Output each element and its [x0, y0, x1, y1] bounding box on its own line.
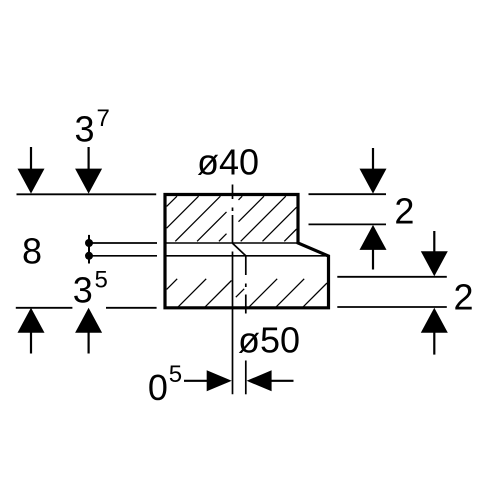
hatching upper band: [167, 196, 297, 241]
arrowhead up BL1: [18, 308, 45, 333]
inner wall line lower: [165, 255, 328, 257]
svg-text:3: 3: [75, 109, 95, 150]
arrowhead down BR: [421, 251, 448, 276]
center line jog: [233, 243, 246, 256]
svg-text:5: 5: [95, 266, 108, 293]
svg-text:2: 2: [454, 277, 474, 318]
arrow up TR stem: [372, 249, 374, 270]
arrow up BL2 stem: [87, 331, 89, 354]
extension line bottom-left b: [106, 307, 157, 309]
extension line top-right: [309, 193, 387, 195]
svg-text:ø40: ø40: [197, 141, 259, 182]
chain dot 1: [85, 239, 93, 247]
arrowhead up BL2: [75, 308, 102, 333]
leader right of bottom arrows: [271, 380, 294, 382]
arrowhead down TL2: [75, 169, 102, 194]
center line B lower (dash-dot): [245, 256, 247, 394]
arrowhead left (0.5 dim): [247, 370, 272, 391]
arrow down TR stem: [372, 148, 374, 170]
arrowhead up TR: [360, 225, 387, 250]
chain dot 2: [85, 252, 93, 260]
svg-text:2: 2: [394, 191, 414, 232]
dim line bottom-right 1: [337, 276, 447, 278]
arrow down BR stem: [433, 231, 435, 252]
arrowhead right (0.5 dim): [207, 370, 232, 391]
hatching lower band: [167, 279, 327, 307]
arrowhead down TR: [360, 169, 387, 194]
inner wall line upper: [165, 242, 297, 244]
center line A upper (dash-dot): [232, 185, 234, 244]
arrow up BL1 stem: [30, 331, 32, 354]
dim line right upper 2: [309, 223, 387, 225]
chain line 1 (to dot): [89, 242, 157, 244]
svg-text:0: 0: [148, 367, 168, 408]
svg-text:ø50: ø50: [238, 320, 300, 361]
svg-text:5: 5: [169, 361, 182, 388]
extension line bottom-left a: [16, 307, 73, 309]
extension line top-left: [17, 193, 157, 195]
chain dot tick 2: [88, 248, 90, 263]
svg-text:8: 8: [22, 231, 42, 272]
body outline (thick section profile): [165, 195, 329, 308]
arrow down TL2 stem: [87, 147, 89, 170]
svg-text:7: 7: [97, 105, 110, 132]
svg-text:3: 3: [73, 270, 93, 311]
arrow up BR stem: [433, 331, 435, 355]
leader left of bottom arrows: [184, 380, 208, 382]
center line A extension (solid): [232, 252, 234, 395]
arrow down TL1 stem: [30, 147, 32, 170]
dim line bottom-right 2: [337, 306, 447, 308]
arrowhead down TL1: [18, 169, 45, 194]
arrowhead up BR: [421, 308, 448, 333]
chain line 2 (to dot): [89, 255, 157, 257]
chain dot tick 1: [88, 235, 90, 250]
